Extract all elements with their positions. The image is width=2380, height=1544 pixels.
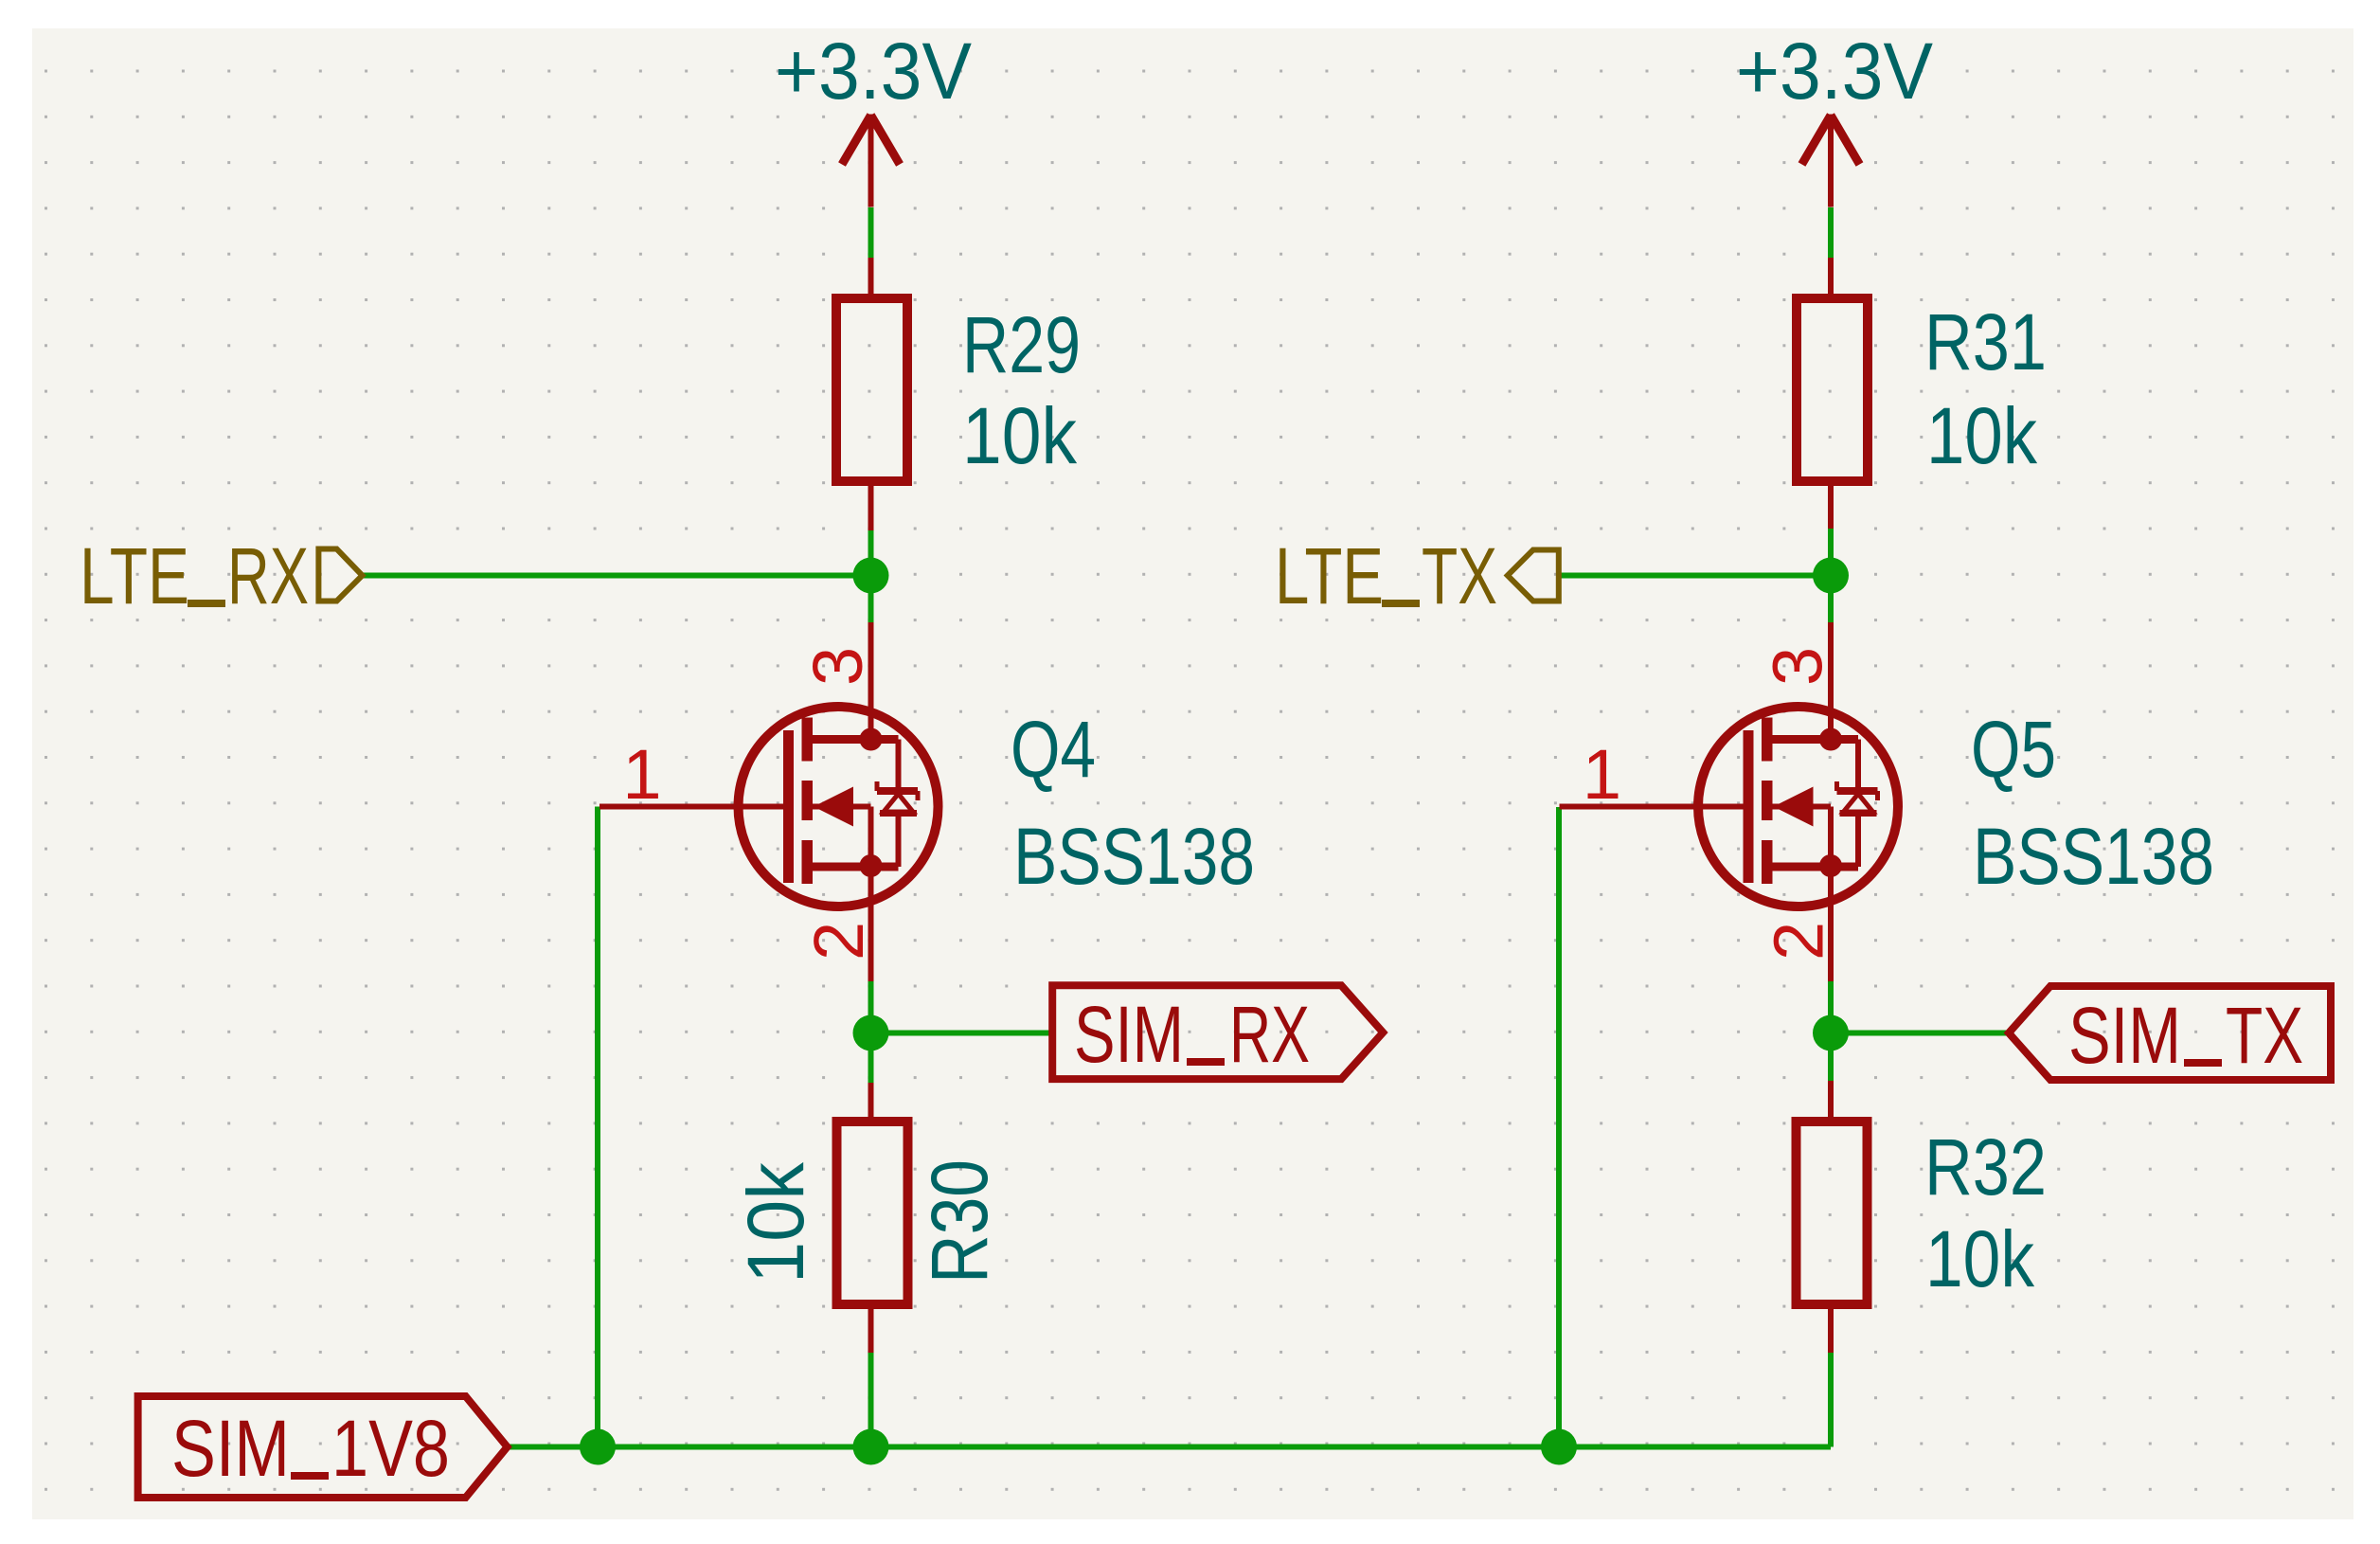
- svg-text:10k: 10k: [1925, 1214, 2035, 1303]
- svg-text:TX: TX: [1422, 531, 1497, 620]
- svg-text:+3.3V: +3.3V: [1736, 27, 1933, 116]
- svg-text:SIM: SIM: [1074, 990, 1184, 1079]
- svg-text:R30: R30: [915, 1159, 1004, 1284]
- svg-text:LTE: LTE: [1275, 531, 1384, 620]
- svg-text:1V8: 1V8: [331, 1404, 450, 1493]
- svg-text:R29: R29: [962, 300, 1081, 389]
- svg-text:RX: RX: [227, 531, 309, 620]
- svg-text:+3.3V: +3.3V: [775, 27, 972, 116]
- svg-text:10k: 10k: [731, 1161, 820, 1284]
- svg-text:Q5: Q5: [1971, 705, 2056, 794]
- svg-text:LTE: LTE: [80, 531, 189, 620]
- svg-text:10k: 10k: [962, 391, 1078, 480]
- svg-text:SIM: SIM: [171, 1404, 290, 1493]
- svg-text:BSS138: BSS138: [1013, 812, 1255, 901]
- svg-text:SIM: SIM: [2068, 991, 2181, 1080]
- svg-text:10k: 10k: [1926, 391, 2038, 480]
- svg-text:R32: R32: [1924, 1122, 2047, 1212]
- svg-text:BSS138: BSS138: [1973, 812, 2214, 901]
- svg-text:RX: RX: [1229, 990, 1310, 1079]
- svg-text:Q4: Q4: [1011, 705, 1096, 794]
- svg-text:TX: TX: [2226, 991, 2303, 1080]
- svg-text:R31: R31: [1924, 297, 2047, 386]
